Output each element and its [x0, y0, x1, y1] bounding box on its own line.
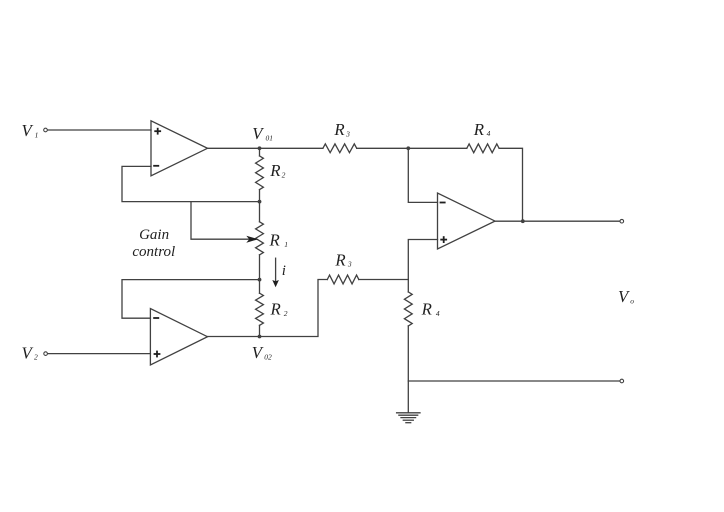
svg-text:V: V [618, 287, 630, 306]
svg-text:02: 02 [264, 353, 272, 362]
svg-text:V: V [22, 121, 34, 140]
svg-text:R: R [269, 231, 280, 250]
svg-text:R: R [421, 300, 432, 319]
svg-text:01: 01 [266, 133, 274, 142]
svg-text:R: R [473, 120, 484, 139]
svg-text:Gain: Gain [139, 227, 169, 243]
svg-text:1: 1 [35, 131, 39, 140]
svg-text:1: 1 [284, 240, 288, 249]
svg-text:2: 2 [34, 353, 38, 362]
svg-text:control: control [132, 244, 175, 260]
svg-text:2: 2 [282, 170, 286, 179]
svg-text:V: V [22, 344, 34, 363]
svg-text:R: R [333, 120, 344, 139]
svg-text:V: V [252, 343, 264, 362]
svg-text:R: R [270, 300, 281, 319]
svg-text:4: 4 [436, 309, 440, 318]
svg-text:4: 4 [487, 129, 491, 138]
svg-text:o: o [630, 296, 634, 305]
svg-text:i: i [282, 263, 286, 279]
svg-text:R: R [334, 250, 345, 269]
svg-text:2: 2 [284, 309, 288, 318]
svg-text:V: V [252, 124, 264, 143]
svg-text:R: R [269, 161, 280, 180]
svg-text:3: 3 [347, 260, 352, 269]
svg-text:3: 3 [345, 129, 350, 138]
